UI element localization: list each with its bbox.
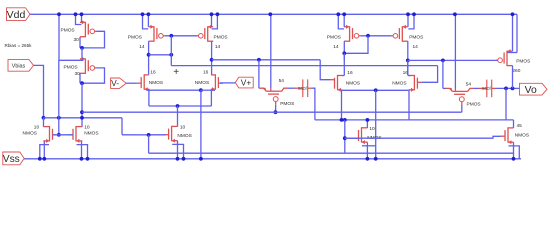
svg-text:45: 45 (517, 123, 523, 129)
svg-text:NMOS: NMOS (392, 80, 406, 86)
svg-text:NMOS: NMOS (346, 80, 360, 86)
svg-text:30: 30 (74, 37, 80, 43)
svg-text:NMOS: NMOS (195, 80, 209, 86)
svg-text:+: + (173, 67, 179, 78)
svg-text:14: 14 (215, 44, 221, 50)
svg-text:PMOS: PMOS (214, 34, 228, 40)
svg-text:PMOS: PMOS (61, 28, 75, 34)
svg-text:NMOS: NMOS (23, 130, 37, 136)
svg-text:260: 260 (512, 68, 520, 74)
svg-text:PMOS: PMOS (64, 64, 78, 70)
svg-text:10: 10 (180, 124, 186, 130)
svg-text:Rbias = 265k: Rbias = 265k (5, 43, 33, 48)
svg-text:500f: 500f (298, 86, 308, 91)
svg-text:10: 10 (34, 124, 40, 130)
svg-text:14: 14 (333, 44, 339, 50)
svg-text:10: 10 (369, 126, 375, 132)
svg-text:NMOS: NMOS (149, 80, 163, 86)
svg-text:10: 10 (84, 124, 90, 130)
svg-text:Vo: Vo (525, 85, 537, 96)
svg-text:NMOS: NMOS (84, 130, 98, 136)
svg-text:14: 14 (413, 44, 419, 50)
svg-text:PMOS: PMOS (467, 101, 481, 107)
svg-text:PMOS: PMOS (409, 34, 423, 40)
svg-text:V-: V- (111, 78, 119, 88)
svg-text:54: 54 (279, 78, 285, 84)
svg-text:V+: V+ (241, 78, 252, 88)
svg-text:Vss: Vss (3, 154, 20, 165)
svg-text:30: 30 (75, 71, 81, 77)
svg-text:Vdd: Vdd (7, 9, 26, 21)
svg-text:16: 16 (150, 69, 156, 75)
svg-text:NMOS: NMOS (177, 133, 191, 139)
svg-text:PMOS: PMOS (516, 58, 530, 64)
svg-text:PMOS: PMOS (128, 34, 142, 40)
svg-text:54: 54 (466, 81, 472, 87)
svg-text:16: 16 (203, 69, 209, 75)
svg-text:PMOS: PMOS (327, 34, 341, 40)
svg-text:500f: 500f (482, 86, 492, 91)
svg-text:16: 16 (347, 70, 353, 76)
svg-text:PMOS: PMOS (280, 101, 294, 107)
svg-text:Vbias: Vbias (12, 63, 26, 69)
svg-text:14: 14 (139, 44, 145, 50)
svg-text:NMOS: NMOS (515, 133, 529, 139)
